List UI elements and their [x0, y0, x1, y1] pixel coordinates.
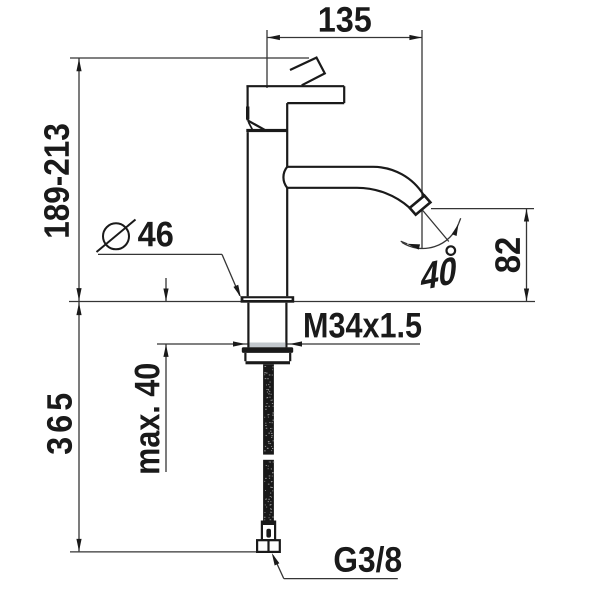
wire: 82 dimension line [526, 209, 528, 301]
arrow arc left [406, 241, 420, 249]
wire: arc tail left [401, 241, 408, 244]
hose texture flecks [264, 366, 274, 520]
shank left edge [247, 303, 249, 348]
spout bottom edge [287, 188, 410, 208]
wire: 40 degree dimension arc [402, 224, 459, 249]
wire: 135 dimension line [267, 37, 422, 39]
wire: 135 right extension line down to angle arc [421, 30, 423, 248]
wire: bottom extension line at hose end [70, 551, 258, 553]
label 189-213 [44, 124, 69, 237]
arrow 189-213 bottom [76, 288, 81, 301]
base flange white stripe [243, 298, 291, 300]
spout top edge [287, 167, 423, 195]
wire: left shared dimension line (189-213 and 365) [78, 58, 80, 551]
faucet column right edge upper [286, 103, 288, 167]
faucet ring bar under head [246, 129, 287, 132]
label max. 40 [135, 364, 160, 473]
G3/8 end nut [257, 540, 280, 552]
arrow 365 bottom [76, 539, 81, 552]
lock nut top bar [242, 347, 293, 353]
arrow arc right [452, 223, 461, 236]
hose ferrule crimp band [262, 522, 275, 525]
wire: 40 degree direction line from spout tip [423, 211, 449, 242]
wire: diameter 46 leader underline [98, 253, 222, 255]
arrow max40 upper [163, 289, 168, 302]
faucet column right edge lower [286, 188, 288, 296]
wire: 189-213 top extension line [70, 57, 309, 59]
label 365 [47, 394, 72, 454]
wire: G3/8 leader diagonal [273, 556, 284, 579]
lock nut bottom bar [246, 361, 291, 364]
faucet head pivot bulge [246, 107, 249, 120]
shank right edge [285, 303, 287, 348]
faucet head chamfer [248, 120, 265, 129]
label 82 [495, 238, 520, 272]
hose ferrule slot [266, 529, 271, 538]
label diameter symbol slash [97, 220, 136, 253]
base flange [241, 296, 295, 303]
label 46 [138, 222, 173, 247]
arrow 189-213 top [76, 59, 81, 72]
faucet column left edge [247, 132, 249, 296]
faucet head right edge [343, 86, 345, 103]
wire: 135 left extension line [266, 30, 268, 88]
arrow max40 lower [163, 344, 168, 357]
arrow M34 right [290, 341, 303, 346]
label 40 rotated [420, 256, 457, 291]
faucet lever handle [290, 58, 325, 86]
faucet head wedge line [248, 122, 252, 130]
arrow M34 left [233, 341, 246, 346]
arrow 135 right [409, 35, 422, 40]
arrow 365 top [76, 303, 81, 316]
label M34x1.5 [305, 313, 421, 338]
arrow 82 bottom [524, 289, 529, 302]
label G3/8 [335, 546, 402, 572]
faucet head top [246, 85, 344, 87]
label degree circle [447, 246, 456, 255]
wire: diameter 46 leader diagonal [222, 254, 240, 295]
G3/8 end nut facet line [267, 540, 269, 552]
wire: max40 upper arrow shaft [165, 278, 167, 301]
flexible hose upper segment [263, 364, 274, 454]
wire: arc tail right [459, 218, 461, 224]
wire: max40 / M34 shared leader line [157, 343, 420, 345]
lock nut body left edge [244, 353, 246, 361]
label 135 [320, 7, 371, 32]
shank gray band [250, 343, 286, 348]
lock nut body right edge [289, 353, 291, 361]
label diameter symbol circle [103, 223, 129, 249]
spout aerator cap [410, 196, 431, 215]
arrow diameter46 leader [233, 285, 243, 299]
flexible hose lower segment [263, 460, 274, 522]
wire: max40 lower arrow shaft [165, 344, 167, 472]
wire: countertop plane line [69, 301, 535, 303]
hose ferrule [262, 522, 275, 541]
spout rounded left end [283, 167, 287, 188]
faucet head bottom-right ledge [287, 102, 344, 104]
arrow 82 top [524, 209, 529, 222]
faucet head left edge [247, 86, 249, 120]
wire: G3/8 leader underline [284, 578, 398, 580]
arrow 135 left [267, 35, 280, 40]
wire: 82 top extension line [431, 208, 534, 210]
arrow G3/8 leader [269, 552, 279, 566]
